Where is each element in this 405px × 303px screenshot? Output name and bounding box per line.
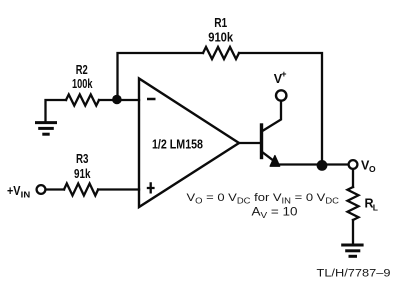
svg-text:100k: 100k (72, 77, 93, 91)
ground under RL (341, 245, 363, 256)
resistor RL (348, 187, 359, 220)
wire RL to ground (352, 220, 354, 244)
svg-text:O: O (369, 164, 376, 174)
terminal Vo circle (349, 160, 358, 169)
svg-text:TL/H/7787–9: TL/H/7787–9 (317, 268, 391, 280)
wire inverting input (99, 99, 139, 101)
svg-text:R1: R1 (214, 16, 227, 30)
svg-text:L: L (373, 203, 378, 213)
wire R2 ground riser (46, 100, 67, 122)
svg-text:1/2 LM158: 1/2 LM158 (152, 138, 203, 152)
op-amp minus sign (147, 98, 156, 101)
op-amp plus sign (147, 182, 155, 193)
resistor R1 (203, 47, 239, 59)
transistor Q1 collector (262, 101, 282, 131)
svg-text:+V: +V (7, 184, 21, 198)
transistor Q1 emitter (262, 152, 273, 160)
node junction at R2 / inverting input (112, 95, 122, 105)
node junction at output (317, 160, 328, 171)
wire top feedback left segment (118, 53, 204, 100)
transistor Q1 base bar (260, 125, 263, 158)
resistor R2 (66, 95, 99, 106)
wire top feedback right segment (239, 53, 322, 161)
ground under R2 (35, 123, 57, 135)
svg-text:+: + (281, 69, 286, 79)
wire Vo to RL (352, 169, 354, 187)
wire emitter to output (277, 163, 349, 165)
transistor Q1 emitter arrowhead (270, 156, 279, 167)
svg-text:91k: 91k (74, 167, 91, 181)
terminal V+ circle (276, 90, 286, 100)
svg-text:R2: R2 (76, 63, 88, 77)
svg-text:IN: IN (21, 190, 31, 200)
wire non-inverting input (98, 188, 139, 190)
svg-text:AV = 10: AV = 10 (252, 207, 298, 221)
terminal +VIN circle (37, 185, 46, 194)
wire from +VIN terminal (46, 188, 65, 190)
svg-text:VO = 0 VDC for VIN = 0 VDC: VO = 0 VDC for VIN = 0 VDC (187, 192, 340, 206)
resistor R3 (64, 184, 98, 196)
wire op-amp output to base (239, 142, 261, 144)
op-amp U1 triangle (139, 79, 239, 208)
svg-text:R3: R3 (76, 152, 89, 166)
svg-text:910k: 910k (208, 30, 233, 44)
